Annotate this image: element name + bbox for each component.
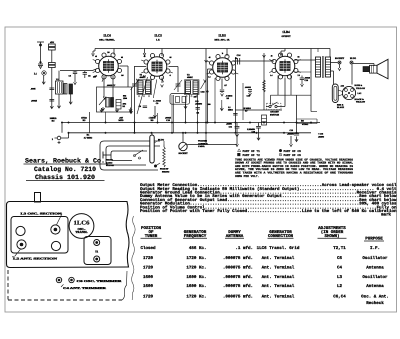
svg-text:OSC.- TRANSL.: OSC.- TRANSL. xyxy=(99,39,115,42)
pin labels V1 xyxy=(95,51,124,78)
svg-text:.1MFD: .1MFD xyxy=(226,123,233,126)
voice coil socket L4 xyxy=(338,86,355,99)
svg-text:45: 45 xyxy=(209,56,211,59)
wire bus drop to T2 area xyxy=(205,49,207,61)
svg-text:+ C15: + C15 xyxy=(318,133,323,136)
ground xyxy=(295,137,298,142)
svg-text:47KΩ: 47KΩ xyxy=(81,116,87,119)
resistor box R9 xyxy=(262,115,267,125)
tube V3 1LD5 xyxy=(210,55,236,81)
wire plate to T3 xyxy=(295,59,316,61)
svg-text:CONTROL: CONTROL xyxy=(198,142,209,145)
wire xyxy=(235,109,282,111)
coil winding bars xyxy=(64,84,73,95)
svg-text:MEG: MEG xyxy=(228,109,233,112)
tube V2 1LC5 xyxy=(144,54,170,80)
label 47ohm xyxy=(123,103,127,109)
label R6 xyxy=(197,112,199,115)
chassis outline xyxy=(7,202,130,268)
svg-text:L2: L2 xyxy=(56,78,58,81)
svg-text:PART OF T2: PART OF T2 xyxy=(243,154,261,157)
svg-text:45: 45 xyxy=(271,55,273,58)
phono wire loop outer xyxy=(100,141,160,170)
svg-text:C6,C4: C6,C4 xyxy=(333,294,346,299)
resistor xyxy=(263,80,266,92)
label 11meg xyxy=(228,106,233,112)
svg-text:PLUG: PLUG xyxy=(350,57,356,60)
osc-transl tube circle xyxy=(69,214,94,239)
phono wire loop inner xyxy=(111,151,147,161)
svg-text:2: 2 xyxy=(52,138,53,141)
capacitor xyxy=(139,105,148,108)
svg-text:R6: R6 xyxy=(197,112,199,115)
svg-text:Catalog No. 7210: Catalog No. 7210 xyxy=(34,166,96,173)
wire bus drop tube4 xyxy=(280,49,285,56)
meter arrow left xyxy=(236,136,239,147)
svg-text:A12: A12 xyxy=(341,85,344,88)
ground xyxy=(220,100,223,111)
svg-text:1600 Kc.: 1600 Kc. xyxy=(186,284,206,289)
legend part of T1 xyxy=(238,149,261,153)
label volume xyxy=(198,140,209,149)
svg-text:Antenna: Antenna xyxy=(366,284,384,289)
transformer T3 xyxy=(316,56,331,78)
terminal B- xyxy=(52,133,69,144)
capacitor xyxy=(248,90,252,96)
svg-text:L3 OSC. SECTION: L3 OSC. SECTION xyxy=(21,213,62,216)
wire riser xyxy=(61,123,63,133)
osc circuit box xyxy=(97,87,132,112)
diag wire xyxy=(153,79,157,98)
T1 can box xyxy=(84,237,111,265)
label C13 xyxy=(287,129,295,136)
socket dot xyxy=(335,57,345,64)
svg-text:TRANSL: TRANSL xyxy=(75,230,87,234)
wire bus arrow 2 xyxy=(143,49,146,56)
svg-text:OHMS PER VOLT.: OHMS PER VOLT. xyxy=(235,175,260,178)
wire xyxy=(51,40,53,43)
capacitor C5b xyxy=(83,71,91,78)
svg-text:45: 45 xyxy=(95,55,97,58)
ground xyxy=(153,106,156,118)
svg-text:1.4: 1.4 xyxy=(270,74,272,77)
ground xyxy=(129,108,132,112)
wire riser xyxy=(89,112,91,133)
plug body xyxy=(332,84,338,103)
svg-text:BLUE &: BLUE & xyxy=(355,84,363,87)
wire xyxy=(311,111,317,113)
capacitor w ground xyxy=(256,123,261,141)
label C12 xyxy=(195,100,203,106)
svg-text:C3: C3 xyxy=(69,75,71,78)
wire xyxy=(69,94,72,104)
svg-text:OUTPUT: OUTPUT xyxy=(281,35,291,38)
pin stubs V1 xyxy=(93,60,104,82)
svg-text:YELLOW: YELLOW xyxy=(356,101,365,104)
capacitor C1 plates xyxy=(38,61,43,68)
T1 trimmer top xyxy=(94,240,100,246)
label 500 xyxy=(208,103,211,106)
svg-text:SWITCH: SWITCH xyxy=(106,164,114,167)
label 00025 c16 xyxy=(165,116,172,122)
svg-text:.00025 C7: .00025 C7 xyxy=(107,84,115,87)
svg-text:.00025: .00025 xyxy=(165,116,172,119)
svg-text:Chassis 101.920: Chassis 101.920 xyxy=(35,174,95,181)
socket arrow xyxy=(338,64,341,70)
pin labels V3 xyxy=(208,52,237,79)
tube V4 1LB4 xyxy=(272,53,298,79)
svg-text:.00025: .00025 xyxy=(31,100,38,103)
T1 trimmer bottom xyxy=(94,256,100,262)
svg-text:1LC6: 1LC6 xyxy=(74,221,90,227)
svg-text:I. F.: I. F. xyxy=(156,39,160,42)
label c6 trimmer xyxy=(77,280,124,283)
label A7 xyxy=(224,84,226,87)
label 00025 C9 xyxy=(153,100,161,106)
svg-text:.02MFD: .02MFD xyxy=(195,103,203,106)
pickup jack xyxy=(154,163,160,167)
capacitor .0005 C2 xyxy=(31,88,55,91)
svg-text:VOLUME: VOLUME xyxy=(198,140,208,143)
wire xyxy=(169,66,179,68)
svg-text:T2,T1: T2,T1 xyxy=(333,246,346,251)
svg-text:C4 ANT. TRIMMER: C4 ANT. TRIMMER xyxy=(63,287,108,290)
svg-text:C6 OSC. TRIMMER: C6 OSC. TRIMMER xyxy=(77,280,124,283)
svg-text:C8: C8 xyxy=(139,105,141,108)
svg-text:C19: C19 xyxy=(305,79,308,82)
wire xyxy=(233,60,274,62)
pin stubs V2 xyxy=(141,60,173,82)
variable resistor arrow xyxy=(99,97,106,105)
svg-text:1LC5: 1LC5 xyxy=(154,34,162,38)
svg-text:1720 Kc.: 1720 Kc. xyxy=(186,266,206,271)
capacitor xyxy=(196,108,200,110)
chassis lower dashed outline xyxy=(8,270,127,300)
ground xyxy=(50,104,53,109)
capacitor xyxy=(220,79,224,97)
svg-text:1500: 1500 xyxy=(123,97,127,100)
resistor B box xyxy=(49,63,56,68)
wire xyxy=(135,66,147,68)
svg-text:L2 ANT. SECTION: L2 ANT. SECTION xyxy=(13,258,57,261)
wire xyxy=(58,71,60,81)
svg-text:85: 85 xyxy=(298,56,300,59)
wire xyxy=(277,76,279,96)
label c4 trimmer xyxy=(61,284,108,290)
phono switch contacts xyxy=(134,150,144,159)
label blue yellow xyxy=(355,84,366,90)
wire xyxy=(331,62,338,64)
svg-text:C9: C9 xyxy=(156,102,158,105)
svg-text:1LB4: 1LB4 xyxy=(282,30,290,34)
pin stubs V3 xyxy=(207,61,239,74)
label L3 osc section xyxy=(21,213,63,225)
svg-text:1600: 1600 xyxy=(143,275,154,280)
svg-text:C15: C15 xyxy=(247,95,250,98)
title chassis xyxy=(26,174,105,181)
wire xyxy=(331,71,334,84)
label 1meg r9 xyxy=(149,116,156,122)
wire xyxy=(281,78,285,107)
alignment table xyxy=(140,226,388,306)
wire xyxy=(120,66,129,87)
tuning gang box xyxy=(11,217,68,254)
label C11 xyxy=(226,123,233,129)
label 25meg xyxy=(243,107,251,113)
title sears xyxy=(24,158,108,165)
wire B+ drop right xyxy=(310,49,312,112)
transformer T2 xyxy=(185,74,200,97)
svg-text:85: 85 xyxy=(121,56,123,59)
svg-text:1.4: 1.4 xyxy=(143,75,145,78)
wire xyxy=(197,94,199,133)
label V3 xyxy=(214,34,230,42)
svg-text:.25MFD: .25MFD xyxy=(287,133,295,136)
pin labels V2 xyxy=(143,55,171,78)
avc arrow xyxy=(161,78,164,88)
svg-text:4.7 MEG: 4.7 MEG xyxy=(84,136,93,139)
label C18 xyxy=(247,128,256,134)
wire bus drop tube2 xyxy=(161,49,163,57)
capacitor .00025 C3 xyxy=(31,100,54,103)
label L2 ant section xyxy=(12,249,57,261)
table torn left edge xyxy=(132,216,136,300)
label 250 xyxy=(93,76,96,79)
wire riser xyxy=(134,123,136,133)
label 0005 xyxy=(245,86,252,89)
diag wire xyxy=(137,77,148,114)
bus junction dots xyxy=(61,122,312,134)
capacitor w ground xyxy=(235,123,240,137)
gang circle 1 xyxy=(16,226,25,235)
legend part of CR xyxy=(279,149,301,153)
svg-text:.0005Ω: .0005Ω xyxy=(245,86,252,89)
label R8 xyxy=(301,120,308,127)
wire grid lead y70.6 xyxy=(60,69,97,71)
wire xyxy=(296,95,298,133)
arrow marks top bus xyxy=(205,55,266,63)
transformer T1 xyxy=(137,74,152,97)
svg-text:Osc. & Ant.: Osc. & Ant. xyxy=(361,294,389,299)
svg-text:456 Kc.: 456 Kc. xyxy=(189,246,207,251)
wire xyxy=(234,57,236,133)
svg-text:L3: L3 xyxy=(337,275,343,280)
label L4C xyxy=(358,92,362,95)
wire xyxy=(263,53,265,110)
svg-text:180: 180 xyxy=(194,96,197,99)
coil L2 box xyxy=(56,78,64,94)
wire xyxy=(214,78,216,123)
label C15 MFD xyxy=(318,133,325,139)
label V4 xyxy=(281,30,291,38)
ground xyxy=(100,108,103,112)
svg-text:1720 Kc.: 1720 Kc. xyxy=(186,256,206,261)
coil L1 xyxy=(34,71,46,76)
label 047MFD xyxy=(119,116,124,122)
svg-text:PART OF C5: PART OF C5 xyxy=(284,154,302,157)
label V1 xyxy=(99,34,115,42)
svg-text:R2: R2 xyxy=(123,105,125,108)
label T1 xyxy=(95,251,99,254)
chassis shaft xyxy=(35,193,41,203)
label black yellow xyxy=(355,98,366,104)
svg-text:85: 85 xyxy=(235,57,237,60)
wire xyxy=(208,69,213,123)
wire xyxy=(151,133,153,135)
volume pot R7 xyxy=(178,133,188,155)
svg-text:ON-OFF: ON-OFF xyxy=(270,111,279,114)
label plug xyxy=(155,138,165,143)
wire xyxy=(187,144,237,146)
svg-text:PICK-UP: PICK-UP xyxy=(160,168,169,171)
svg-text:500: 500 xyxy=(208,103,211,106)
wire mid bus xyxy=(62,122,320,124)
svg-text:BLACK: BLACK xyxy=(337,106,345,109)
tube V1 1LC6 xyxy=(96,53,122,79)
resistor box xyxy=(116,100,121,110)
svg-text:C13: C13 xyxy=(290,129,293,132)
label PM1500 xyxy=(123,95,127,101)
wire riser xyxy=(157,113,159,123)
label red black xyxy=(337,103,345,109)
svg-text:1720 Kc.: 1720 Kc. xyxy=(186,294,206,299)
wire xyxy=(297,119,318,124)
wire xyxy=(51,68,53,105)
svg-text:R1: R1 xyxy=(87,134,90,137)
svg-text:B5: B5 xyxy=(107,51,109,54)
diode box xyxy=(170,94,190,105)
svg-text:PHONO: PHONO xyxy=(162,170,170,173)
svg-text:C18: C18 xyxy=(252,131,255,134)
svg-text:A7: A7 xyxy=(224,84,226,87)
svg-text:.5MFD: .5MFD xyxy=(318,136,325,139)
label A12 xyxy=(341,85,344,88)
wire xyxy=(290,76,292,96)
ground xyxy=(42,76,45,85)
wire bottom B- bus xyxy=(69,132,312,134)
svg-text:456KC: 456KC xyxy=(187,76,194,79)
gang circle 2 xyxy=(51,241,60,250)
wire riser xyxy=(205,60,207,123)
wire xyxy=(57,94,60,108)
svg-text:1.4: 1.4 xyxy=(208,76,210,79)
wire xyxy=(112,76,114,98)
svg-text:L2: L2 xyxy=(337,284,343,289)
variable capacitor C6 xyxy=(131,66,140,133)
svg-text:OS: OS xyxy=(121,74,124,77)
ground trio xyxy=(101,107,132,114)
svg-text:SOCKET: SOCKET xyxy=(335,57,345,60)
svg-text:1600: 1600 xyxy=(143,284,154,289)
switch S1 xyxy=(266,102,281,110)
svg-text:1720: 1720 xyxy=(143,266,154,271)
svg-text:7.5: 7.5 xyxy=(298,74,300,77)
svg-text:C11: C11 xyxy=(229,126,232,129)
svg-text:1.4: 1.4 xyxy=(95,75,97,78)
svg-text:T1: T1 xyxy=(140,74,143,77)
svg-text:100KΩ: 100KΩ xyxy=(50,117,57,120)
shield pair wires xyxy=(172,95,174,133)
wire xyxy=(51,50,53,63)
trimmer C6 xyxy=(56,277,61,282)
wire xyxy=(295,71,312,73)
svg-text:T2: T2 xyxy=(187,74,190,77)
label V2 xyxy=(154,34,162,42)
resistor A box xyxy=(49,41,56,50)
wire xyxy=(242,83,244,120)
svg-text:C4Ω: C4Ω xyxy=(200,91,204,94)
svg-text:I.F.: I.F. xyxy=(370,246,380,251)
svg-text:YELLOW: YELLOW xyxy=(356,87,365,90)
label R1 4.7MEG xyxy=(84,134,93,140)
svg-text:SOCKET: SOCKET xyxy=(178,152,188,155)
capacitor xyxy=(294,134,299,136)
variable capacitor trimmer xyxy=(174,67,182,93)
svg-text:PHONO: PHONO xyxy=(106,159,113,162)
junction blob xyxy=(200,91,208,94)
svg-text:C4: C4 xyxy=(337,266,343,271)
svg-text:1720: 1720 xyxy=(143,294,154,299)
legend part of T2 xyxy=(238,153,261,157)
ground xyxy=(184,105,187,109)
wire riser low xyxy=(205,123,207,145)
wire bus drop T3 xyxy=(317,49,319,53)
svg-text:R5: R5 xyxy=(227,97,229,100)
label 100K xyxy=(50,117,57,123)
svg-text:1 MEG.: 1 MEG. xyxy=(198,145,205,148)
gang trimmer L3 xyxy=(51,225,60,234)
plug dot xyxy=(350,57,356,64)
antenna terminal xyxy=(37,42,44,62)
wire top B+ bus xyxy=(95,49,330,58)
label C15 xyxy=(247,95,250,98)
svg-text:Sears, Roebuck & Co.: Sears, Roebuck & Co. xyxy=(25,158,105,165)
svg-text:85: 85 xyxy=(170,56,172,59)
wire riser xyxy=(105,112,107,123)
capacitor C14 xyxy=(237,54,242,65)
speaker xyxy=(363,59,388,79)
coil bar 2 xyxy=(111,98,114,108)
label on-off xyxy=(270,111,279,117)
meter arrow right xyxy=(290,136,293,147)
wire xyxy=(185,96,187,122)
svg-text:1LD5: 1LD5 xyxy=(218,34,226,38)
svg-text:SWITCH: SWITCH xyxy=(270,114,279,117)
svg-text:C6: C6 xyxy=(337,256,343,261)
svg-text:Antenna: Antenna xyxy=(366,266,384,271)
svg-text:PART OF T1: PART OF T1 xyxy=(243,150,261,153)
legend part of CR2 xyxy=(279,153,301,157)
svg-text:L4C: L4C xyxy=(358,92,362,95)
svg-text:PART OF C5: PART OF C5 xyxy=(284,150,302,153)
svg-text:DET.- AVC.- 1F.: DET.- AVC.- 1F. xyxy=(214,39,230,42)
label SGT xyxy=(194,96,197,99)
svg-text:1720: 1720 xyxy=(143,256,154,261)
svg-text:2.25MFD: 2.25MFD xyxy=(247,128,256,131)
svg-text:1 MEG: 1 MEG xyxy=(149,116,156,119)
label 41meg xyxy=(226,95,233,101)
spec text block xyxy=(140,183,397,217)
svg-text:PLUG: PLUG xyxy=(158,138,164,141)
pin labels V4 xyxy=(270,55,300,78)
coil bar 1 xyxy=(106,98,110,108)
wire bus drop tube1 xyxy=(113,49,115,55)
pin stubs V4 xyxy=(269,60,301,73)
wire b+ y95 xyxy=(271,95,312,104)
label phono radio switch xyxy=(106,159,114,168)
note paragraph xyxy=(235,158,353,178)
svg-text:MFD: MFD xyxy=(119,119,124,122)
